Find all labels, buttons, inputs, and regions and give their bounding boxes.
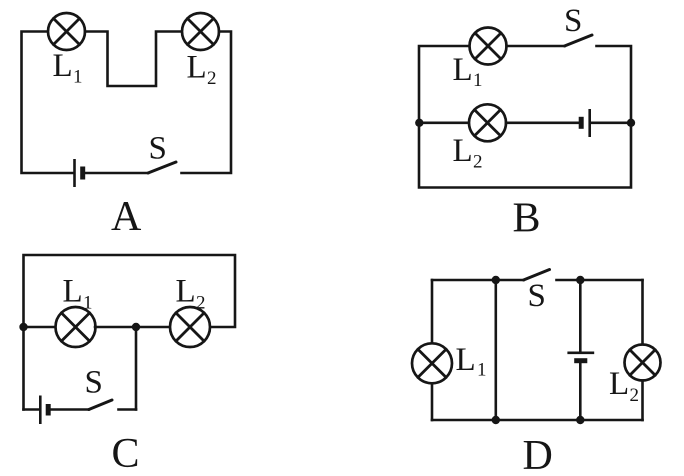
- svg-text:S: S: [564, 3, 582, 39]
- wire C middle vertical from junction down to switch: [135, 327, 138, 410]
- svg-text:1: 1: [473, 70, 483, 91]
- node right junction (circuit B): [627, 119, 635, 127]
- battery cell (circuit C): long plate: [39, 396, 42, 425]
- wire D inner vertical 2 below battery: [579, 362, 582, 420]
- battery cell (circuit A): short thick plate: [80, 167, 85, 180]
- wire A battery to switch pivot: [84, 172, 148, 175]
- lamp L2 (circuit B): [469, 104, 506, 141]
- switch S lever (circuit B): [565, 35, 593, 46]
- wire D right vertical below lamp L2: [641, 381, 644, 421]
- lamp L2 (circuit D): [625, 345, 661, 381]
- wire D right vertical above lamp L2: [641, 280, 644, 345]
- wire D top side right of switch: [557, 279, 643, 282]
- switch S lever (circuit A): [148, 162, 176, 173]
- wire D top side left of switch: [432, 279, 524, 282]
- svg-text:1: 1: [83, 293, 93, 314]
- wire C battery to switch pivot: [50, 408, 89, 411]
- battery cell (circuit B): short thick plate: [579, 117, 584, 129]
- battery cell (circuit D): long plate: [567, 351, 594, 354]
- wire C top rectangle: top side, left side down, right side down to middle: [24, 255, 236, 410]
- wire B middle branch: left node to lamp L2: [419, 122, 469, 125]
- wire D left vertical below lamp L1: [431, 383, 434, 420]
- svg-text:S: S: [528, 278, 546, 314]
- svg-text:A: A: [111, 194, 142, 240]
- svg-text:L: L: [453, 52, 473, 88]
- svg-text:S: S: [85, 365, 103, 401]
- node middle junction (circuit C): [132, 323, 140, 331]
- svg-text:1: 1: [477, 360, 487, 381]
- lamp L2 (circuit A): [182, 13, 219, 50]
- lamp L1 (circuit B): [470, 28, 507, 65]
- wire C between lamps: [95, 326, 171, 329]
- svg-text:2: 2: [207, 68, 217, 89]
- battery cell (circuit A): long plate: [73, 159, 76, 187]
- wire B lamp L1 to switch pivot: [507, 45, 565, 48]
- node left junction (circuit B): [415, 119, 423, 127]
- svg-text:L: L: [53, 48, 73, 84]
- svg-text:C: C: [112, 431, 140, 476]
- wire C middle branch: left node to lamp L1: [24, 326, 57, 329]
- svg-text:S: S: [149, 131, 167, 167]
- wire A switch to right side up to L2: [182, 32, 232, 174]
- wire B battery to right node: [591, 122, 631, 125]
- wire D inner vertical 2 above battery: [579, 280, 582, 352]
- battery cell (circuit C): short thick plate: [46, 404, 51, 416]
- node left junction (circuit C): [19, 323, 27, 331]
- wire D inner vertical 1: [494, 280, 497, 420]
- svg-text:2: 2: [196, 293, 206, 314]
- switch S lever (circuit D): [524, 270, 550, 281]
- wire C switch to middle vertical: [119, 408, 137, 411]
- node top junction 2 (circuit D): [576, 276, 584, 284]
- wire D left vertical above lamp L1: [431, 280, 434, 344]
- lamp L1 (circuit A): [48, 13, 85, 50]
- wire C bottom-left corner to battery: [24, 408, 40, 411]
- svg-text:L: L: [63, 274, 83, 310]
- svg-text:L: L: [609, 366, 629, 402]
- lamp L1 (circuit D): [412, 343, 452, 383]
- svg-text:L: L: [176, 274, 196, 310]
- svg-text:2: 2: [630, 385, 640, 406]
- svg-text:L: L: [456, 342, 476, 378]
- lamp L1 (circuit C): [56, 307, 96, 347]
- wire A middle dip between L1 and L2: [85, 32, 182, 87]
- wire A left loop (top-left corner, left side, bottom to battery): [22, 32, 74, 174]
- battery cell (circuit B): long plate: [588, 109, 591, 137]
- lamp L2 (circuit C): [170, 307, 210, 347]
- svg-text:D: D: [523, 433, 553, 476]
- wire D bottom side: [432, 419, 643, 422]
- switch S lever (circuit C): [89, 400, 112, 410]
- node bottom junction 1 (circuit D): [492, 416, 500, 424]
- svg-text:B: B: [513, 196, 541, 242]
- battery cell (circuit D): short thick plate: [574, 358, 587, 363]
- svg-text:L: L: [453, 133, 473, 169]
- svg-text:2: 2: [473, 152, 483, 173]
- wire B lamp L2 to battery: [506, 122, 579, 125]
- svg-text:1: 1: [73, 67, 83, 88]
- wire B outer rectangle left/top-left segment: [419, 46, 631, 188]
- node top junction 1 (circuit D): [492, 276, 500, 284]
- svg-text:L: L: [187, 50, 207, 86]
- node bottom junction 2 (circuit D): [576, 416, 584, 424]
